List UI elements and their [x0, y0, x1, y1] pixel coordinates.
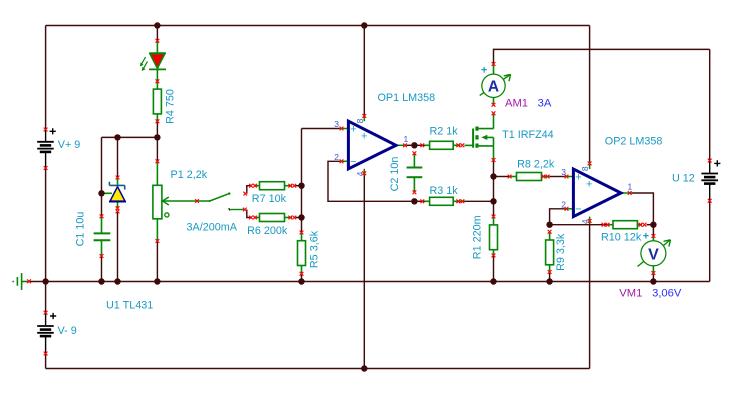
- pin R1 bottom: [492, 253, 496, 257]
- junction T1 source / R8: [490, 173, 496, 179]
- svg-text:OP2 LM358: OP2 LM358: [605, 136, 663, 148]
- wire GND bus: [46, 281, 710, 283]
- pin U12 top: [708, 159, 712, 163]
- pin P1 bottom: [156, 239, 160, 243]
- pin OP1 8: [362, 114, 366, 118]
- wire P1 top lead: [156, 137, 158, 161]
- junction GND bus / R5: [298, 278, 304, 284]
- resistor R3 1k: [425, 197, 465, 205]
- svg-text:R1 220m: R1 220m: [471, 215, 483, 259]
- svg-text:U 12: U 12: [672, 173, 695, 185]
- wire C1 bottom to GND bus: [101, 256, 103, 282]
- pin R8 right b: [546, 175, 550, 179]
- svg-text:R4 750: R4 750: [164, 89, 176, 124]
- wire node A down left branch to TL431 ref: [101, 137, 103, 193]
- pin R7 right a: [288, 184, 292, 188]
- pin R2 left: [420, 143, 424, 147]
- pin T1 gate: [461, 143, 465, 147]
- pin R6 right a: [288, 216, 292, 220]
- wire left rail middle (V+ batt bottom to ground node): [45, 168, 47, 282]
- svg-text:R9 3,3k: R9 3,3k: [555, 233, 567, 271]
- pin VM1 top: [652, 234, 656, 238]
- svg-text:+: +: [361, 131, 367, 143]
- wire TL431 anode to GND bus: [117, 211, 119, 282]
- wire TL431 ref node to C1 top: [101, 193, 103, 216]
- pin R3 right a: [456, 199, 460, 203]
- pin R9 top: [548, 230, 552, 234]
- svg-text:C1 10u: C1 10u: [75, 212, 87, 247]
- pin OP2 1: [628, 191, 632, 195]
- pin R5 top: [300, 231, 304, 235]
- resistor R10 12k: [607, 221, 642, 229]
- svg-text:3A: 3A: [538, 98, 552, 110]
- wire R8 from T1 source node: [494, 176, 510, 178]
- svg-text:R2 1k: R2 1k: [430, 126, 459, 138]
- wire ammeter top feed: [494, 49, 710, 64]
- wire OP1 pin2 feedback: [328, 161, 414, 201]
- svg-text:R7 10k: R7 10k: [252, 193, 287, 205]
- wire ground stub to left rail: [29, 281, 46, 283]
- transistor T1 IRFZ44 (N-MOSFET): [465, 113, 494, 162]
- wire OP2 pin2 from R9/R10 node: [550, 209, 565, 225]
- pin C1 top: [100, 214, 104, 218]
- wire left rail bottom (V- battery to bottom rail): [45, 354, 47, 369]
- wire R9 R10 node horizontal: [550, 224, 607, 226]
- pin OP1 2: [340, 159, 344, 163]
- pin ground: [27, 279, 31, 283]
- pin LED anode: [156, 39, 160, 43]
- svg-text:3: 3: [561, 167, 566, 177]
- resistor R9 3,3k: [546, 232, 554, 272]
- svg-text:−: −: [350, 156, 356, 168]
- battery U12: [701, 160, 720, 201]
- pin T1 drain: [492, 111, 496, 115]
- svg-text:V: V: [648, 246, 659, 263]
- resistor R6 200k: [254, 214, 292, 222]
- wire OP1 output to node B: [407, 144, 414, 146]
- pin TL431 anode b: [116, 210, 120, 214]
- pin LED cathode / R4 top: [156, 79, 160, 83]
- svg-text:+: +: [575, 171, 581, 183]
- LED D1: [140, 41, 166, 89]
- pin R8 right a: [542, 175, 546, 179]
- pin R10 right a: [639, 223, 643, 227]
- wire top V+ rail: [46, 25, 590, 27]
- pin OP2 2: [565, 207, 569, 211]
- junction T1 source / R3 / R1: [490, 198, 496, 204]
- junction top rail / LED: [154, 22, 160, 28]
- resistor R1 220m: [490, 217, 498, 256]
- pin VM1 bottom: [652, 271, 656, 275]
- junction node A / R4-P1: [154, 134, 160, 140]
- svg-text:+: +: [643, 231, 649, 243]
- pin C1 bottom: [100, 254, 104, 258]
- svg-text:AM1: AM1: [505, 98, 528, 110]
- svg-text:C2 10n: C2 10n: [389, 157, 401, 192]
- junction node B OP1 out / R2 / C2: [411, 142, 417, 148]
- wire R5 bottom to GND bus: [301, 274, 303, 282]
- svg-text:R5 3,6k: R5 3,6k: [309, 230, 321, 268]
- resistor R4 750: [153, 89, 161, 121]
- pin U12 bottom: [708, 199, 712, 203]
- wire right rail upper (to U12): [709, 49, 711, 160]
- wire OP2 V+ pin8 from top rail corner: [589, 26, 591, 162]
- svg-text:2: 2: [334, 152, 339, 162]
- wire mid bus OP1 pin3 down to R5: [301, 129, 303, 233]
- pin R10 left a: [602, 223, 606, 227]
- junction bottom rail / OP1 pin4: [361, 365, 367, 371]
- wire R6 right to mid bus: [296, 217, 302, 219]
- pin P1 wiper: [195, 199, 199, 203]
- pin OP2 8: [588, 162, 592, 166]
- junction mid bus / R6: [298, 214, 304, 220]
- wire bottom V- rail: [46, 368, 590, 370]
- pin R7 right b: [292, 184, 296, 188]
- op-amp OP1 LM358: [340, 115, 408, 176]
- svg-text:P1 2,2k: P1 2,2k: [171, 169, 208, 181]
- pin R4 bottom: [156, 119, 160, 123]
- svg-text:+: +: [586, 179, 592, 191]
- junction TL431 ref / C1: [98, 190, 104, 196]
- junction top rail / OP1 pin8: [361, 22, 367, 28]
- wire node B to R2: [414, 144, 424, 146]
- pin R6 right b: [292, 216, 296, 220]
- wire OP1 pin3 horizontal: [302, 128, 340, 130]
- junction GND bus / C1: [98, 278, 104, 284]
- svg-text:3,06V: 3,06V: [652, 288, 682, 300]
- pin R3 right b: [461, 199, 465, 203]
- pin R5 bottom: [300, 272, 304, 276]
- svg-text:R10 12k: R10 12k: [601, 232, 642, 244]
- resistor R7 10k: [254, 182, 292, 190]
- pin P1 top: [156, 159, 160, 163]
- svg-text:3A/200mA: 3A/200mA: [187, 222, 238, 234]
- wire R4 bottom to node A: [156, 121, 158, 137]
- pin C2 bottom: [413, 190, 417, 194]
- svg-text:OP1 LM358: OP1 LM358: [378, 92, 436, 104]
- svg-text:+: +: [350, 123, 356, 135]
- PINMARKS: [27, 39, 712, 356]
- wire OP1 V+ pin8 from top rail: [363, 26, 365, 115]
- svg-text:+: +: [481, 65, 487, 77]
- pin C2 top: [413, 151, 417, 155]
- svg-text:VM1: VM1: [619, 288, 642, 300]
- pin V-9 top: [44, 311, 48, 315]
- pin R2 right: [456, 143, 460, 147]
- junction GND bus / VM1: [650, 278, 656, 284]
- svg-text:U1 TL431: U1 TL431: [106, 300, 153, 312]
- pin OP1 4: [362, 171, 366, 175]
- battery V+9: [37, 128, 56, 168]
- pin switch contact 200mA: [243, 208, 247, 212]
- op-amp OP2 LM358: [565, 162, 632, 224]
- svg-text:V+ 9: V+ 9: [58, 139, 81, 151]
- wire R10 right to voltmeter node: [647, 224, 654, 226]
- ammeter AM1: [480, 64, 511, 105]
- pin AM1 bottom: [492, 103, 496, 107]
- wire R9 bottom to GND bus: [549, 272, 551, 282]
- pin T1 source: [492, 158, 496, 162]
- junction GND bus / P1: [154, 278, 160, 284]
- pin AM1 top: [492, 62, 496, 66]
- wire P1 bottom to GND bus: [156, 241, 158, 282]
- wire R7 right to mid bus: [296, 185, 302, 187]
- pin R9 bottom: [548, 270, 552, 274]
- junction OP2 pin2 / R9 / R10: [546, 222, 552, 228]
- pin R3 left: [420, 199, 424, 203]
- pin R10 right b: [643, 223, 647, 227]
- resistor R8 2,2k: [509, 173, 550, 181]
- pin R6 left a: [249, 216, 253, 220]
- battery V-9: [37, 313, 56, 354]
- wire OP2 output to voltmeter node: [632, 193, 654, 225]
- wire node C to R3: [414, 200, 424, 202]
- wire voltmeter bottom to GND bus: [652, 275, 654, 282]
- svg-text:4: 4: [355, 171, 365, 176]
- pin R8 left: [508, 175, 512, 179]
- pin V+9 bottom: [44, 166, 48, 170]
- svg-text:1: 1: [404, 134, 409, 144]
- voltmeter VM1: [638, 236, 671, 275]
- junction mid bus / R7: [298, 183, 304, 189]
- TL431 U1: [102, 178, 127, 210]
- pin R7 left a: [249, 184, 253, 188]
- resistor R5 3,6k: [298, 233, 306, 274]
- wire left rail upper (V+ battery top lead): [45, 26, 47, 130]
- junction node C feedback / C2 / R3: [411, 198, 417, 204]
- wire switch upper contact to R7: [247, 186, 251, 194]
- junction GND bus / TL431 anode: [114, 278, 120, 284]
- svg-text:3: 3: [334, 119, 339, 129]
- wire voltmeter top lead: [652, 225, 654, 236]
- wire switch lower contact to R6: [247, 210, 251, 218]
- junction GND bus / R1: [490, 278, 496, 284]
- junction GND bus / R9: [546, 278, 552, 284]
- junction GND bus / left rail: [42, 278, 48, 284]
- capacitor C1 10u: [94, 216, 111, 256]
- pin R10 left b: [606, 223, 610, 227]
- pin R1 top: [492, 215, 496, 219]
- svg-text:4: 4: [580, 219, 590, 224]
- pin OP2 4: [588, 219, 592, 223]
- switch S1 3A/200mA: [209, 192, 244, 210]
- pin V-9 bottom: [44, 352, 48, 356]
- wire left rail lower (ground node to V- battery): [45, 282, 47, 313]
- pin TL431 cathode: [116, 176, 120, 180]
- svg-text:2: 2: [561, 200, 566, 210]
- svg-text:R3 1k: R3 1k: [430, 185, 459, 197]
- wire R3 right to T1 source node: [465, 200, 494, 202]
- svg-text:1: 1: [628, 182, 633, 192]
- pin switch contact 3A: [243, 192, 247, 196]
- wire LED top lead from V+ rail: [156, 26, 158, 41]
- pin OP1 3: [340, 127, 344, 131]
- wire OP1 V- pin4 down to bottom rail: [363, 176, 365, 369]
- wire OP2 V- pin4 down to bottom rail: [589, 224, 591, 369]
- svg-text:T1 IRFZ44: T1 IRFZ44: [502, 129, 554, 141]
- wire right rail lower (U12 to GND bus): [709, 201, 711, 282]
- pin R6 left b: [253, 216, 257, 220]
- wire node A horizontal: [102, 136, 158, 138]
- wire TL431 cathode lead: [117, 137, 119, 177]
- pin TL431 anode a: [116, 206, 120, 210]
- pin V+9 top: [44, 128, 48, 132]
- ground: [12, 273, 29, 290]
- pin R7 left b: [253, 184, 257, 188]
- wire T1 source down: [493, 162, 495, 217]
- svg-text:V- 9: V- 9: [58, 325, 77, 337]
- junction node A / TL431 cathode: [114, 134, 120, 140]
- svg-text:A: A: [488, 79, 499, 96]
- capacitor C2 10n: [407, 153, 423, 192]
- wire R1 bottom to GND bus: [493, 255, 495, 281]
- svg-text:R8 2,2k: R8 2,2k: [517, 159, 555, 171]
- svg-text:R6 200k: R6 200k: [247, 225, 288, 237]
- junction OP2 out / R10 / VM1: [650, 222, 656, 228]
- pin OP1 1: [403, 143, 407, 147]
- potentiometer P1 2,2k: [153, 161, 210, 241]
- svg-text:−: −: [575, 203, 581, 215]
- wire R8 right to OP2 pin3: [550, 176, 565, 178]
- resistor R2 1k: [425, 141, 461, 149]
- pin OP2 3: [565, 175, 569, 179]
